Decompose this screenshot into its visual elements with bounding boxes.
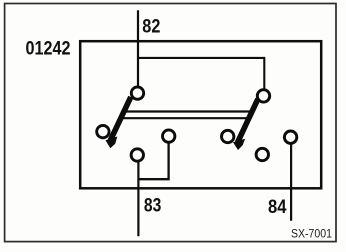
- svg-text:82: 82: [142, 16, 160, 37]
- switch armature right: [233, 99, 258, 150]
- switch armature left: [106, 97, 131, 148]
- wire link line upper: [125, 110, 253, 112]
- contact circle lone right: [256, 148, 268, 160]
- contact circle left lower: [97, 125, 109, 137]
- wire terminal 84 vertical: [290, 144, 292, 221]
- wire link line lower: [122, 117, 251, 119]
- contact circle right top (82 branch): [257, 90, 269, 102]
- svg-text:84: 84: [268, 197, 287, 218]
- contact circle 84: [284, 131, 296, 143]
- svg-text:SX-7001: SX-7001: [291, 226, 332, 240]
- contact circle right lower: [222, 130, 234, 142]
- relay box K (component 01242): [80, 41, 321, 188]
- svg-text:83: 83: [144, 196, 161, 217]
- wire terminal 83 vertical: [137, 162, 139, 237]
- svg-text:01242: 01242: [26, 39, 71, 60]
- wire terminal 82 vertical: [137, 10, 139, 87]
- contact circle 83: [131, 149, 143, 161]
- wire connector 83 net inside box: [138, 143, 169, 180]
- contact circle left top (82): [131, 87, 143, 99]
- wire branch 82 to right contact: [138, 58, 264, 91]
- contact circle mid-left: [163, 130, 175, 142]
